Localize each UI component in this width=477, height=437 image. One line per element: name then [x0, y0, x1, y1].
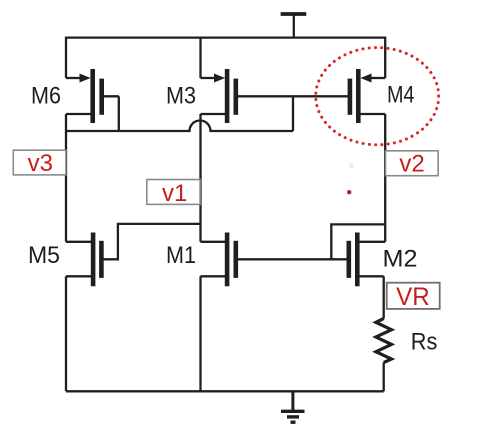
wire M5 gate path: [101, 224, 200, 259]
svg-text:M6: M6: [31, 83, 61, 110]
wire v2 column (M4 drain to M2 drain): [384, 114, 386, 242]
wire M2 source down: [383, 276, 385, 318]
resistor Rs: [376, 319, 392, 363]
svg-text:M2: M2: [383, 245, 418, 272]
transistor M1: [201, 233, 236, 287]
node v1 label box: [147, 180, 200, 208]
transistor M5: [66, 233, 101, 287]
wire resistor to ground rail: [383, 363, 385, 392]
top rail wire: [66, 36, 385, 38]
ground symbol: [281, 391, 305, 422]
wire v1 column (M3 drain to M1 drain): [199, 114, 201, 242]
wire M5 source to ground rail: [65, 276, 67, 391]
red dot annotation: [347, 190, 351, 194]
faint smudge: [349, 163, 354, 168]
svg-text:VR: VR: [396, 283, 430, 311]
power supply VDD symbol: [281, 14, 307, 38]
node v3 label box: [13, 150, 66, 177]
transistor M4 (mirrored): [350, 69, 385, 123]
wire M1 source to ground rail: [199, 276, 201, 391]
wire M3 source drop: [199, 37, 201, 79]
wire M3 gate down to node line: [292, 96, 294, 131]
wire M4 source drop: [384, 37, 386, 79]
svg-text:M5: M5: [28, 242, 60, 269]
wire M6 gate down: [118, 96, 120, 131]
svg-text:v1: v1: [162, 180, 187, 207]
svg-text:Rs: Rs: [411, 328, 438, 355]
transistor M6: [66, 69, 119, 123]
wire M6 drain / v3 column: [65, 114, 67, 242]
svg-text:M3: M3: [166, 83, 196, 110]
svg-text:M1: M1: [166, 242, 196, 269]
svg-text:v2: v2: [399, 151, 424, 178]
transistor M2 (mirrored): [349, 233, 385, 287]
svg-text:M4: M4: [387, 82, 415, 109]
wire M6 source drop: [65, 37, 67, 79]
wire shared gate line M3-M4: [236, 95, 350, 97]
node VR label box: [387, 283, 440, 311]
node v2 label box: [386, 151, 439, 178]
transistor M3: [201, 69, 236, 123]
wire M2 gate tie branch: [331, 224, 385, 259]
svg-text:v3: v3: [28, 150, 53, 177]
node v3 line with hop over v1 wire: [66, 121, 293, 132]
wire M1-M2 gate line: [236, 258, 349, 260]
red dotted ellipse around M4: [316, 48, 439, 145]
bottom ground rail wire: [66, 390, 384, 392]
